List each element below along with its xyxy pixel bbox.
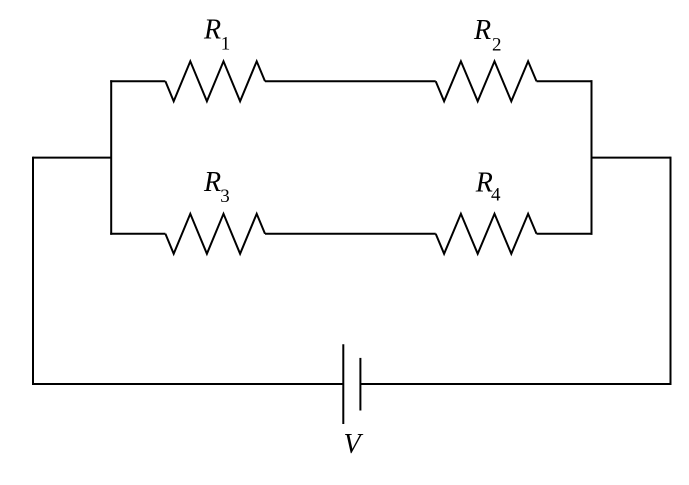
- wire: inner loop left vertical (top branch to middle branch): [110, 80, 112, 235]
- battery V positive plate (long): [342, 344, 344, 424]
- wire: right connector (inner-right vertical to outer loop): [592, 157, 671, 159]
- wire: inner loop right vertical (top branch to middle branch): [591, 80, 593, 235]
- svg-text:1: 1: [221, 33, 231, 54]
- svg-text:2: 2: [492, 35, 502, 56]
- wire: top branch middle segment: [265, 80, 436, 82]
- resistor R2: [436, 61, 537, 101]
- svg-text:3: 3: [220, 186, 230, 207]
- resistor R3: [165, 214, 265, 254]
- wire: top branch right lead: [537, 80, 593, 82]
- resistor R4: [436, 214, 537, 254]
- wire: outer loop right vertical: [670, 157, 672, 385]
- resistor R1: [165, 61, 265, 101]
- wire: middle branch middle segment: [265, 233, 436, 235]
- wire: top branch left lead: [110, 80, 165, 82]
- wire: middle branch right lead: [537, 233, 593, 235]
- wire: bottom left segment (to battery positive plate): [32, 383, 343, 385]
- svg-text:R: R: [473, 15, 491, 46]
- svg-text:V: V: [344, 429, 364, 460]
- battery V negative plate (short): [359, 358, 361, 411]
- svg-text:4: 4: [491, 185, 501, 206]
- wire: bottom right segment (from battery negative plate): [360, 383, 671, 385]
- wire: left connector (outer loop to node at inner-left vertical): [33, 157, 111, 159]
- wire: middle branch left lead: [110, 233, 165, 235]
- svg-text:R: R: [203, 167, 221, 198]
- wire: outer loop left vertical: [32, 157, 34, 385]
- svg-text:R: R: [203, 15, 221, 46]
